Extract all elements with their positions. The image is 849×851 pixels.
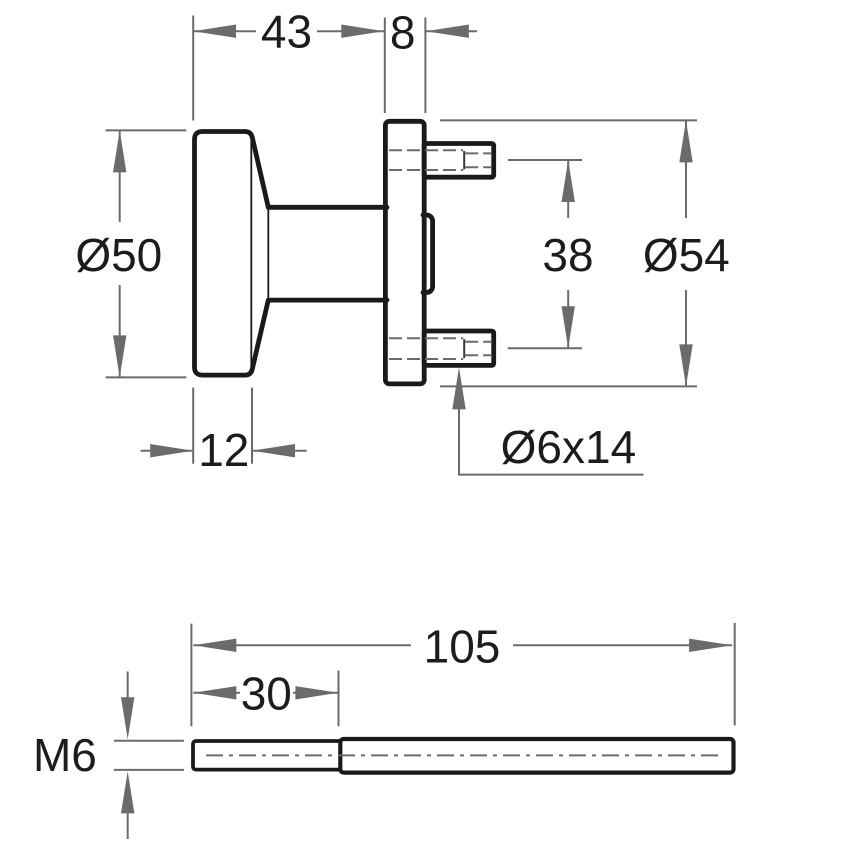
svg-text:43: 43 bbox=[261, 6, 312, 58]
svg-text:38: 38 bbox=[542, 229, 593, 281]
svg-text:Ø54: Ø54 bbox=[643, 229, 730, 281]
svg-text:Ø50: Ø50 bbox=[75, 229, 162, 281]
svg-text:12: 12 bbox=[198, 424, 249, 476]
svg-text:M6: M6 bbox=[33, 729, 97, 781]
svg-text:8: 8 bbox=[390, 7, 416, 59]
svg-text:105: 105 bbox=[424, 621, 501, 673]
svg-text:Ø6x14: Ø6x14 bbox=[501, 421, 637, 473]
svg-text:30: 30 bbox=[241, 668, 292, 720]
